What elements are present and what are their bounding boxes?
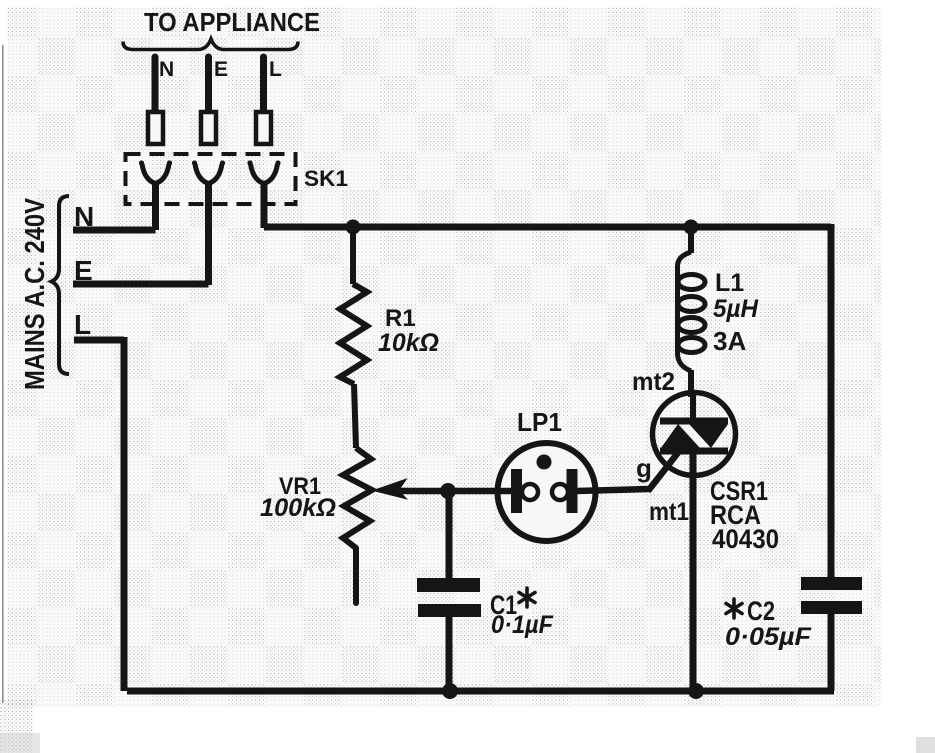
resistor R1 zigzag: [340, 284, 367, 384]
svg-text:mt1: mt1: [649, 498, 689, 526]
junction node wiper/C1: [440, 483, 456, 499]
capacitor C1 top plate: [417, 578, 480, 592]
wire mains L vertical down left side: [121, 337, 128, 691]
junction node mt1/bottom rail: [688, 683, 704, 699]
svg-text:L: L: [74, 309, 91, 340]
svg-text:SK1: SK1: [304, 166, 348, 191]
socket contact E: [195, 164, 222, 184]
svg-text:g: g: [636, 453, 652, 483]
wire right edge vertical: [828, 224, 835, 578]
wire wiper to LP1: [394, 488, 513, 495]
capacitor C1 bottom plate: [418, 604, 481, 617]
inductor L1 loop 3: [678, 318, 705, 333]
svg-text:L1: L1: [715, 269, 744, 297]
wire LP1 to gate bend: [577, 489, 650, 491]
socket contact N stem / wire to N: [152, 183, 159, 230]
svg-text:E: E: [214, 58, 228, 81]
wire mains N: [73, 227, 156, 234]
triac left triangle (up): [661, 424, 700, 448]
triac CSR1 circle: [653, 393, 736, 476]
plug pin E lead: [205, 57, 212, 114]
inductor L1 loop 1: [678, 275, 705, 290]
brace mains: [52, 196, 70, 374]
capacitor C2 bottom lead: [828, 614, 835, 691]
socket contact L stem to top rail: [261, 183, 268, 228]
svg-text:0·05µF: 0·05µF: [725, 623, 812, 651]
page edge streak: [2, 45, 4, 703]
svg-text:40430: 40430: [712, 524, 779, 554]
plug pin E body: [201, 112, 216, 144]
brace over appliance pins: [123, 39, 298, 50]
plug pin N body: [148, 112, 163, 144]
svg-text:LP1: LP1: [517, 407, 562, 437]
LP1 left electrode ring: [522, 484, 538, 500]
LP1 left electrode: [511, 469, 522, 513]
svg-text:0·1µF: 0·1µF: [491, 611, 554, 639]
inductor L1 top lead: [688, 227, 694, 253]
resistor R1 lead top: [350, 227, 356, 284]
wiper arrow of VR1: [375, 480, 405, 498]
neon lamp LP1 circle: [498, 443, 596, 541]
inductor L1 spine: [677, 252, 691, 371]
wire bottom rail: [127, 688, 834, 695]
wire L1 to triac mt2: [691, 370, 693, 421]
svg-text:100kΩ: 100kΩ: [260, 494, 336, 522]
socket contact N: [142, 164, 169, 184]
junction node C1/bottom rail: [442, 683, 458, 699]
potentiometer VR1 bottom lead (open): [353, 548, 359, 603]
svg-text:R1: R1: [385, 305, 416, 332]
inductor L1 loop 4: [678, 338, 705, 353]
asterisk C1: [519, 588, 535, 607]
capacitor C1 bottom lead: [446, 617, 453, 691]
plug pin L body: [256, 112, 271, 144]
capacitor C1 top lead: [446, 491, 453, 579]
triac bottom bar: [660, 448, 728, 455]
svg-text:L: L: [269, 58, 282, 81]
wire mains L horizontal: [74, 337, 124, 344]
inductor L1 loop 2: [678, 297, 705, 312]
svg-text:10kΩ: 10kΩ: [378, 329, 439, 357]
capacitor C2 bottom plate: [801, 601, 862, 614]
svg-text:TO APPLIANCE: TO APPLIANCE: [144, 7, 320, 37]
socket contact L: [251, 164, 278, 184]
wire triac mt1 down: [690, 452, 697, 691]
wire into LP1 left: [498, 488, 513, 495]
LP1 right electrode: [567, 469, 578, 513]
LP1 gas dot: [537, 455, 552, 470]
plug pin L lead: [260, 57, 267, 114]
capacitor C2 top plate: [801, 577, 862, 590]
plug pin N lead: [152, 57, 159, 114]
LP1 right electrode ring: [552, 484, 568, 500]
asterisk C2: [726, 599, 742, 618]
triac top bar: [660, 418, 728, 425]
svg-text:5µH: 5µH: [713, 295, 759, 323]
socket SK1 dashed outline: [126, 154, 296, 204]
svg-text:mt2: mt2: [632, 368, 675, 396]
wire mains E: [73, 281, 209, 288]
wire R1 to VR1: [354, 384, 356, 448]
svg-text:N: N: [159, 58, 174, 81]
wire top rail: [264, 224, 831, 231]
junction node R1/top rail: [346, 220, 361, 235]
gate wire diagonal: [648, 445, 684, 491]
svg-text:MAINS A.C. 240V: MAINS A.C. 240V: [19, 198, 50, 390]
potentiometer VR1 zigzag: [343, 448, 372, 548]
triac right triangle (down): [689, 424, 728, 448]
svg-text:3A: 3A: [713, 326, 746, 356]
svg-text:C2: C2: [747, 596, 775, 626]
socket contact E stem / wire to E: [205, 183, 212, 285]
junction node L1/top rail: [684, 220, 699, 235]
